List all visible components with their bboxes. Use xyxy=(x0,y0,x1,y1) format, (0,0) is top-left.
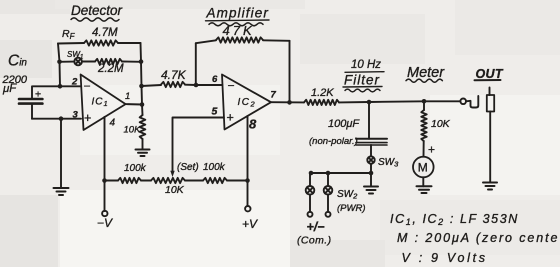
switch SW2 a xyxy=(309,173,311,186)
svg-text:+/−: +/− xyxy=(307,220,326,234)
terminal: out plug circle xyxy=(460,99,466,105)
svg-text:−: − xyxy=(84,79,91,93)
op-amp IC2 xyxy=(222,75,271,130)
wire: detector feedback left rail xyxy=(58,44,60,87)
wire: amplifier feedback right rail xyxy=(289,41,291,103)
wire: amplifier feedback left rail xyxy=(195,43,197,85)
bottom rail: -V to +V with resistors xyxy=(105,180,119,182)
capacitor 100uF non-polar xyxy=(356,138,387,140)
svg-text:10K: 10K xyxy=(165,184,185,196)
capacitor Cin 2200uF xyxy=(31,86,33,99)
svg-text:(non-polar.): (non-polar.) xyxy=(309,136,358,147)
svg-text:−V: −V xyxy=(97,216,113,230)
svg-text:10K: 10K xyxy=(431,118,451,130)
svg-text:+: + xyxy=(35,88,41,100)
wire: right rail of IC1 (feedback/output) xyxy=(141,43,143,115)
wire: SW1 branch xyxy=(60,61,75,63)
potentiometer 10K xyxy=(151,178,185,183)
svg-text:IC1: IC1 xyxy=(92,97,109,109)
ground (input) xyxy=(54,187,69,189)
wire: filter cap drop xyxy=(368,102,370,139)
svg-text:4.7M: 4.7M xyxy=(92,27,118,39)
ground (out jack) xyxy=(483,182,497,184)
svg-text:4: 4 xyxy=(110,118,116,129)
svg-text:4.7K: 4.7K xyxy=(161,68,187,82)
svg-text:+: + xyxy=(84,111,91,125)
svg-text:V : 9 Volts: V : 9 Volts xyxy=(402,251,488,265)
svg-text:2: 2 xyxy=(71,77,78,88)
underlines xyxy=(71,18,501,92)
wire: IC2 pin5 to pot wiper xyxy=(173,118,224,173)
svg-text:M: M xyxy=(418,161,428,175)
ground (IC1 load) xyxy=(136,149,150,151)
svg-text:Meter: Meter xyxy=(407,65,445,81)
resistor 10K meter xyxy=(423,101,425,110)
wire: -V terminal drop xyxy=(104,181,106,212)
underline Meter xyxy=(406,79,442,82)
switch SW2 b xyxy=(327,173,329,186)
terminal +V xyxy=(245,206,250,211)
svg-text:10K: 10K xyxy=(124,125,142,136)
resistor 100k right xyxy=(203,178,227,183)
svg-text:μF: μF xyxy=(2,83,17,95)
svg-text:100μF: 100μF xyxy=(328,118,360,130)
svg-text:Amplifier: Amplifier xyxy=(206,6,269,21)
wire: 4.7K coupling xyxy=(142,85,162,86)
wire: pin3 input xyxy=(32,118,81,120)
wire: IC1 pin4 drop to -V rail xyxy=(104,117,106,181)
wire: SW2 bus xyxy=(310,172,371,174)
wire: pin2 input xyxy=(33,85,81,87)
svg-text:+: + xyxy=(227,111,234,125)
svg-text:SW2: SW2 xyxy=(337,189,358,201)
svg-text:10 Hz: 10 Hz xyxy=(351,59,381,71)
ground (filter) xyxy=(364,186,378,188)
wire: ground drop from pin3 wire xyxy=(60,119,62,188)
ground (meter) xyxy=(417,185,432,187)
svg-text:47K: 47K xyxy=(223,23,255,38)
resistor 100k left xyxy=(118,178,141,183)
wire: detector feedback top rail xyxy=(58,42,84,45)
underline Amplifier xyxy=(206,19,270,22)
pot wiper arrowhead xyxy=(170,171,174,177)
svg-text:8: 8 xyxy=(249,117,257,132)
svg-text:OUT: OUT xyxy=(476,67,504,81)
svg-text:3: 3 xyxy=(73,110,79,121)
switch SW1 xyxy=(74,58,82,66)
wire: pin6 node to IC2 xyxy=(196,84,222,86)
underline 10Hz xyxy=(345,71,384,74)
underline OUT xyxy=(475,79,501,81)
wire: main out bus xyxy=(339,101,460,102)
svg-text:1: 1 xyxy=(125,91,130,102)
wire: IC2 pin8 drop to +V rail xyxy=(247,116,249,181)
svg-text:SW3: SW3 xyxy=(378,157,399,169)
wire: IC2 output xyxy=(271,101,304,103)
underline Detector xyxy=(71,18,119,21)
svg-text:1.2K: 1.2K xyxy=(311,87,334,99)
meter M xyxy=(413,157,434,178)
underline Filter xyxy=(343,86,382,89)
svg-text:Filter: Filter xyxy=(344,73,380,88)
svg-text:−: − xyxy=(228,79,235,93)
resistor 4.7K xyxy=(161,82,185,87)
switch SW3 xyxy=(367,156,374,163)
wire: +V terminal drop xyxy=(247,181,249,207)
wire+hook: phone plug xyxy=(466,96,478,108)
svg-text:100k: 100k xyxy=(124,163,147,174)
svg-text:5: 5 xyxy=(212,106,218,118)
wire: IC1 output to rail xyxy=(126,103,142,105)
resistor 1.2K xyxy=(304,100,339,105)
svg-text:7: 7 xyxy=(271,90,277,101)
jack OUT body xyxy=(487,95,494,112)
svg-text:(PWR): (PWR) xyxy=(337,203,366,214)
svg-text:Detector: Detector xyxy=(71,3,123,18)
resistor RF 4.7M xyxy=(84,40,118,45)
resistor 47K feedback xyxy=(216,37,263,42)
resistor 2.2M xyxy=(95,59,122,64)
wire: amplifier feedback top rail xyxy=(196,40,216,43)
svg-text:2.2M: 2.2M xyxy=(97,63,124,75)
op-amp IC1 xyxy=(81,75,126,131)
svg-text:IC2: IC2 xyxy=(238,97,257,109)
svg-text:(Set): (Set) xyxy=(177,162,199,173)
svg-text:+V: +V xyxy=(242,217,258,231)
resistor 10K (IC1 load) xyxy=(140,115,146,139)
terminal -V xyxy=(102,211,107,216)
svg-text:(Com.): (Com.) xyxy=(297,235,331,247)
svg-text:M : 200μA (zero cente: M : 200μA (zero cente xyxy=(397,231,559,245)
svg-text:100k: 100k xyxy=(203,162,226,173)
wire: 2.2M to right rail xyxy=(122,61,141,63)
svg-text:6: 6 xyxy=(212,74,218,85)
svg-text:+: + xyxy=(428,143,435,157)
